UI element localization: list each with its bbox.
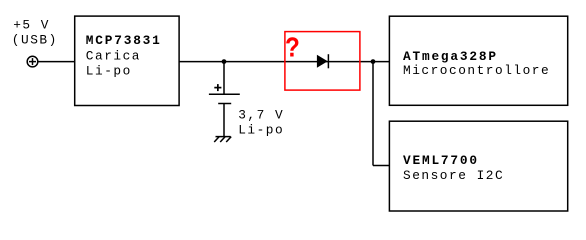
svg-text:VEML7700: VEML7700 [403,153,479,168]
svg-text:+5 V: +5 V [13,17,50,32]
svg-text:?: ? [285,33,300,65]
svg-text:Carica: Carica [86,49,141,64]
svg-text:Li-po: Li-po [86,63,132,78]
svg-text:Sensore I2C: Sensore I2C [403,168,504,183]
svg-text:Microcontrollore: Microcontrollore [403,63,550,78]
svg-text:3,7 V: 3,7 V [238,108,284,123]
svg-text:MCP73831: MCP73831 [86,33,162,48]
svg-text:Li-po: Li-po [238,123,284,138]
svg-text:(USB): (USB) [12,32,58,47]
svg-text:ATmega328P: ATmega328P [403,49,498,64]
